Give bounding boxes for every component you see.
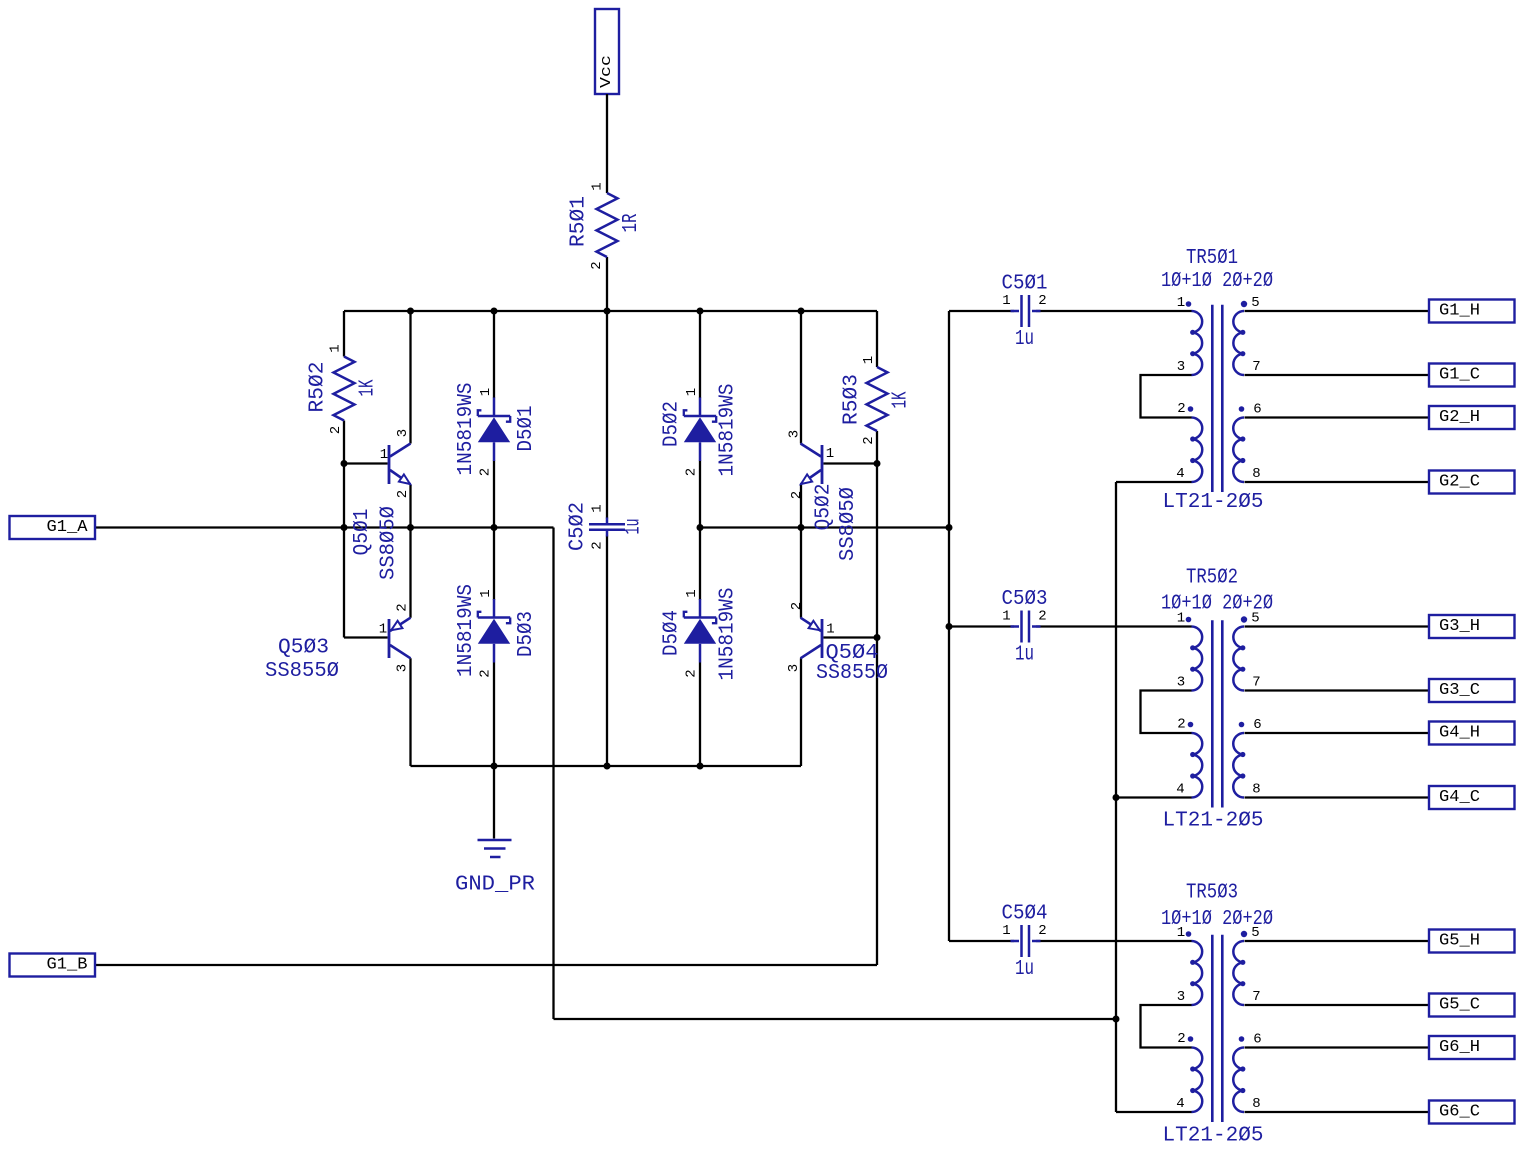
svg-text:TR5Ø2: TR5Ø2: [1186, 567, 1238, 590]
svg-text:1: 1: [861, 356, 877, 364]
port G3_H: [1429, 615, 1515, 638]
transformer TR503: [1161, 882, 1273, 1148]
svg-text:2: 2: [789, 491, 805, 499]
junction at (700,311): [697, 308, 704, 315]
svg-text:G1_A: G1_A: [47, 518, 89, 537]
svg-text:G5_H: G5_H: [1439, 932, 1480, 951]
capacitor C503: [1002, 588, 1048, 667]
port G4_C: [1429, 786, 1515, 809]
svg-text:D5Ø1: D5Ø1: [515, 406, 538, 452]
junction at (1116,1019): [1113, 1016, 1120, 1023]
svg-text:5: 5: [1251, 611, 1259, 627]
wire node B to C501 pin1: [949, 310, 1014, 312]
junction at (494,527.5): [491, 524, 498, 531]
wire C504 pin2 to TR503 pin1: [1036, 940, 1192, 942]
svg-text:D5Ø4: D5Ø4: [661, 610, 684, 656]
svg-text:6: 6: [1253, 717, 1261, 733]
svg-text:8: 8: [1252, 782, 1260, 798]
port G1_C: [1429, 364, 1515, 387]
svg-text:2: 2: [861, 436, 877, 444]
ground GND_PR: [455, 766, 535, 897]
wire port G1_A to left base rail: [95, 526, 344, 528]
svg-text:1u: 1u: [623, 519, 646, 535]
svg-text:1: 1: [1177, 295, 1185, 311]
wire node B vertical rail: [948, 311, 950, 941]
wire Q502 emitter to node B: [800, 484, 802, 527]
junction at (344,463.5): [341, 460, 348, 467]
junction at (700,527.5): [697, 524, 704, 531]
port G3_C: [1429, 679, 1515, 702]
svg-text:3: 3: [395, 664, 411, 672]
svg-text:R5Ø2: R5Ø2: [307, 362, 330, 413]
svg-text:7: 7: [1252, 359, 1260, 375]
wire top bus to R502 pin1: [343, 311, 345, 357]
port G5_H: [1429, 930, 1515, 953]
wire to port G2_H: [1245, 416, 1430, 418]
svg-text:1N5819WS: 1N5819WS: [717, 588, 740, 681]
junction at (494,311): [491, 308, 498, 315]
wire port G1_B to right base rail: [95, 964, 877, 966]
svg-text:6: 6: [1253, 1032, 1261, 1048]
svg-text:1: 1: [1002, 293, 1010, 309]
svg-text:1: 1: [380, 447, 388, 463]
capacitor C504: [1002, 903, 1048, 982]
svg-text:C5Ø2: C5Ø2: [567, 502, 590, 551]
junction at (1116,797.5): [1113, 794, 1120, 801]
wire node A to primary return rail: [554, 1018, 1117, 1020]
wire to port G4_C: [1245, 796, 1430, 798]
svg-text:1K: 1K: [357, 379, 380, 396]
wire Q501 emitter to node A: [409, 484, 411, 527]
svg-text:G1_H: G1_H: [1439, 302, 1480, 321]
svg-text:G2_H: G2_H: [1439, 408, 1480, 427]
wire Q501 base: [344, 462, 388, 464]
svg-text:2: 2: [328, 426, 344, 434]
svg-text:1: 1: [1002, 923, 1010, 939]
svg-text:1N5819WS: 1N5819WS: [455, 584, 478, 677]
svg-text:1N5819WS: 1N5819WS: [455, 383, 478, 476]
junction at (607,311): [604, 308, 611, 315]
svg-text:G3_H: G3_H: [1439, 617, 1480, 636]
junction at (949,527.5): [946, 524, 953, 531]
svg-text:Vcc: Vcc: [598, 55, 615, 88]
wire TR501 pin3 to pin2 loop: [1141, 375, 1192, 418]
svg-text:2: 2: [478, 669, 494, 677]
svg-text:7: 7: [1252, 989, 1260, 1005]
svg-text:8: 8: [1252, 1096, 1260, 1112]
svg-text:1: 1: [590, 182, 606, 190]
svg-text:1N5819WS: 1N5819WS: [717, 384, 740, 477]
svg-text:1: 1: [826, 622, 834, 638]
wire Q502 base: [824, 462, 878, 464]
wire Q504 emitter row to C503 pin1: [949, 625, 1014, 627]
resistor R502: [307, 344, 380, 434]
svg-text:G5_C: G5_C: [1439, 996, 1480, 1015]
svg-text:GND_PR: GND_PR: [455, 874, 535, 897]
svg-text:1K: 1K: [890, 391, 913, 408]
svg-text:3: 3: [1177, 359, 1185, 375]
junction at (410.5,527.5): [407, 524, 414, 531]
svg-text:2: 2: [1038, 609, 1046, 625]
transistor Q501 SS8050: [351, 429, 411, 580]
wire node A vertical drop: [552, 528, 554, 1020]
wire to port G2_C: [1245, 481, 1430, 483]
port G6_C: [1429, 1101, 1515, 1124]
svg-text:2: 2: [789, 602, 805, 610]
resistor R501: [567, 182, 643, 269]
port G2_H: [1429, 406, 1515, 429]
wire D502 cathode to top bus: [699, 311, 701, 398]
svg-text:3: 3: [395, 429, 411, 437]
svg-text:4: 4: [1176, 466, 1184, 482]
diode D503: [455, 584, 538, 678]
junction at (410.5,311): [407, 308, 414, 315]
svg-text:G6_C: G6_C: [1439, 1103, 1480, 1122]
power symbol Vcc: [595, 9, 619, 94]
svg-text:1: 1: [379, 622, 387, 638]
svg-text:LT21-2Ø5: LT21-2Ø5: [1163, 491, 1264, 514]
junction at (344,527.5): [341, 524, 348, 531]
svg-text:Q5Ø1: Q5Ø1: [351, 509, 374, 556]
wire Q503 base: [344, 636, 388, 638]
wire D503 anode to bottom bus: [493, 663, 495, 767]
junction at (494,766): [491, 763, 498, 770]
svg-text:4: 4: [1176, 1096, 1184, 1112]
port G1_A: [10, 516, 96, 539]
svg-text:5: 5: [1251, 295, 1259, 311]
wire node B to C504 pin1: [949, 940, 1014, 942]
wire top bus Vcc rail: [344, 310, 877, 312]
svg-text:1Ø+1Ø 2Ø+2Ø: 1Ø+1Ø 2Ø+2Ø: [1161, 270, 1273, 293]
wire D503 cathode to node A: [493, 528, 495, 601]
wire Q504 collector to bottom bus: [800, 658, 802, 766]
svg-text:1: 1: [684, 388, 700, 396]
svg-text:2: 2: [1177, 401, 1185, 417]
svg-text:D5Ø2: D5Ø2: [661, 401, 684, 447]
wire C501 pin2 to TR501 pin1: [1036, 310, 1192, 312]
svg-text:4: 4: [1176, 782, 1184, 798]
junction at (700,766): [697, 763, 704, 770]
svg-text:G1_C: G1_C: [1439, 366, 1480, 385]
resistor R503: [841, 356, 913, 445]
svg-text:TR5Ø1: TR5Ø1: [1186, 247, 1238, 270]
wire TR503 pin4: [1116, 1111, 1192, 1113]
transistor Q504 SS8550: [786, 602, 888, 685]
svg-text:2: 2: [1177, 1031, 1185, 1047]
junction at (801,311): [798, 308, 805, 315]
svg-text:SS855Ø: SS855Ø: [265, 660, 339, 683]
svg-text:G1_B: G1_B: [47, 956, 88, 975]
wire R503 pin2 down the right base rail: [876, 431, 878, 965]
wire to port G6_C: [1245, 1111, 1430, 1113]
svg-text:Q5Ø2: Q5Ø2: [813, 484, 836, 531]
transistor Q502 SS8050: [787, 430, 861, 561]
wire Q504 base: [824, 636, 878, 638]
svg-text:G4_C: G4_C: [1439, 788, 1480, 807]
wire Q504 emitter to node B: [800, 528, 802, 618]
wire to port G5_H: [1245, 940, 1430, 942]
svg-text:2: 2: [1038, 293, 1046, 309]
wire to port G5_C: [1245, 1004, 1430, 1006]
wire TR502 pin4: [1116, 796, 1192, 798]
svg-text:2: 2: [684, 468, 700, 476]
wire to port G4_H: [1245, 732, 1430, 734]
wire to port G3_H: [1245, 625, 1430, 627]
junction at (607,766): [604, 763, 611, 770]
svg-text:2: 2: [590, 541, 606, 549]
svg-text:3: 3: [787, 430, 803, 438]
svg-text:SS8Ø5Ø: SS8Ø5Ø: [377, 506, 400, 580]
svg-text:3: 3: [1177, 989, 1185, 1005]
port G2_C: [1429, 471, 1515, 494]
wire R501 pin2 to top bus: [606, 257, 608, 311]
transistor Q503 SS8550: [265, 603, 411, 683]
port G4_H: [1429, 722, 1515, 745]
svg-text:LT21-2Ø5: LT21-2Ø5: [1163, 810, 1264, 833]
port G6_H: [1429, 1036, 1515, 1059]
wire C503 pin2 to TR502 pin1: [1036, 625, 1192, 627]
port G1_B: [10, 954, 96, 977]
wire D504 anode to bottom bus: [699, 663, 701, 767]
junction at (877,637.5): [874, 634, 881, 641]
svg-text:Q5Ø3: Q5Ø3: [278, 637, 329, 660]
svg-text:1: 1: [328, 344, 344, 352]
svg-text:G4_H: G4_H: [1439, 724, 1480, 743]
svg-text:1u: 1u: [1015, 644, 1034, 667]
svg-text:7: 7: [1252, 675, 1260, 691]
svg-text:2: 2: [1177, 717, 1185, 733]
svg-text:6: 6: [1253, 402, 1261, 418]
svg-text:SS8Ø5Ø: SS8Ø5Ø: [837, 487, 860, 561]
wire to port G6_H: [1245, 1046, 1430, 1048]
wire Vcc to R501 pin1: [606, 94, 608, 193]
svg-text:1: 1: [478, 388, 494, 396]
diode D504: [661, 588, 740, 681]
svg-text:TR5Ø3: TR5Ø3: [1186, 882, 1238, 905]
wire Q503 emitter to node A: [409, 528, 411, 618]
port G5_C: [1429, 994, 1515, 1017]
wire D502 anode to node B: [699, 461, 701, 528]
svg-text:G3_C: G3_C: [1439, 681, 1480, 700]
wire primary return rail: [1115, 482, 1117, 1112]
svg-text:1: 1: [684, 589, 700, 597]
svg-text:2: 2: [395, 603, 411, 611]
svg-text:LT21-2Ø5: LT21-2Ø5: [1163, 1125, 1264, 1148]
transformer TR501: [1161, 247, 1273, 514]
svg-text:1: 1: [1002, 609, 1010, 625]
svg-text:2: 2: [1038, 923, 1046, 939]
svg-text:1: 1: [590, 504, 606, 512]
svg-text:R5Ø1: R5Ø1: [567, 196, 590, 247]
wire Q501 collector to top bus: [409, 311, 411, 444]
port G1_H: [1429, 300, 1515, 323]
wire node B horizontal: [700, 526, 949, 528]
wire TR502 pin3 to pin2 loop: [1141, 691, 1192, 734]
svg-text:1: 1: [1177, 611, 1185, 627]
svg-text:R5Ø3: R5Ø3: [841, 374, 864, 425]
wire C502 pin1 to top bus: [606, 311, 608, 519]
svg-text:G2_C: G2_C: [1439, 473, 1480, 492]
capacitor C502: [567, 502, 646, 551]
svg-text:1R: 1R: [620, 213, 643, 232]
svg-text:1: 1: [826, 446, 834, 462]
diode D502: [661, 384, 740, 477]
junction at (801,527.5): [798, 524, 805, 531]
svg-text:3: 3: [786, 664, 802, 672]
svg-text:D5Ø3: D5Ø3: [515, 611, 538, 657]
wire Q502 collector to top bus: [800, 311, 802, 444]
svg-text:G6_H: G6_H: [1439, 1038, 1480, 1057]
diode D501: [455, 383, 538, 477]
svg-text:2: 2: [395, 490, 411, 498]
svg-text:1u: 1u: [1015, 328, 1034, 351]
wire to port G1_C: [1245, 374, 1430, 376]
wire D501 anode to node A: [493, 461, 495, 528]
wire R502 pin2 down the left base rail: [343, 421, 345, 638]
svg-text:5: 5: [1251, 925, 1259, 941]
wire to port G1_H: [1245, 310, 1430, 312]
junction at (949,626.5): [946, 623, 953, 630]
wire D504 cathode to node B: [699, 528, 701, 601]
junction at (877,463.5): [874, 460, 881, 467]
wire TR501 pin4: [1116, 481, 1192, 483]
capacitor C501: [1002, 273, 1048, 352]
wire bottom bus GND rail: [411, 765, 802, 767]
svg-text:2: 2: [478, 468, 494, 476]
wire Q503 collector to bottom bus: [409, 658, 411, 766]
wire node A horizontal: [344, 526, 554, 528]
svg-text:1u: 1u: [1015, 958, 1034, 981]
svg-text:8: 8: [1252, 466, 1260, 482]
svg-text:2: 2: [684, 669, 700, 677]
wire C502 pin2 to bottom bus: [606, 536, 608, 767]
svg-text:1: 1: [478, 589, 494, 597]
wire to port G3_C: [1245, 689, 1430, 691]
wire D501 cathode to top bus: [493, 311, 495, 398]
svg-text:1: 1: [1177, 925, 1185, 941]
transformer TR502: [1161, 567, 1273, 833]
wire top bus to R503 pin1: [876, 311, 878, 367]
wire TR503 pin3 to pin2 loop: [1141, 1005, 1192, 1048]
svg-text:SS855Ø: SS855Ø: [816, 662, 888, 685]
svg-text:3: 3: [1177, 675, 1185, 691]
svg-text:2: 2: [589, 261, 605, 269]
